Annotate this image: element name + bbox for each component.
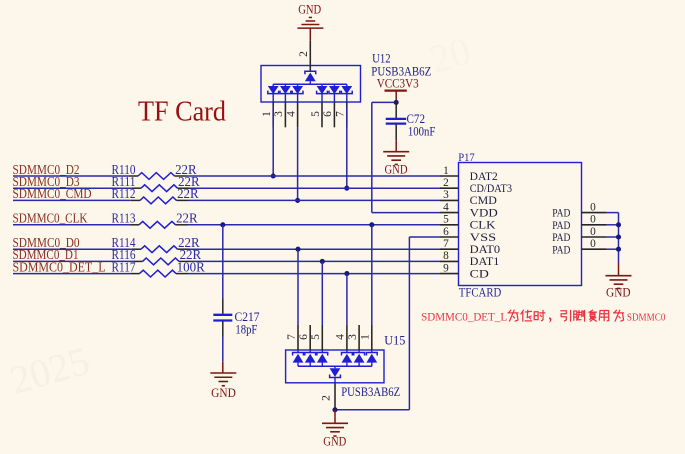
wire: VCC3V3 to P17 VDD (pin 4) (372, 102, 440, 212)
resistor R114 22R (112, 235, 200, 253)
resistor R113 22R (112, 211, 198, 229)
svg-text:7: 7 (286, 334, 298, 340)
svg-text:SDMMC0_CMD: SDMMC0_CMD (13, 186, 92, 201)
svg-text:P17: P17 (458, 150, 475, 164)
wire: SDMMC0_DET_L to U15 pin 4 (344, 271, 349, 325)
svg-text:DAT0: DAT0 (470, 244, 501, 256)
svg-text:5: 5 (443, 214, 449, 226)
P17 pin names (470, 171, 513, 281)
svg-text:SDMMC0: SDMMC0 (627, 311, 666, 323)
resistor R117 100R (112, 259, 205, 277)
svg-text:0: 0 (590, 226, 596, 238)
capacitor C72 100nF (386, 102, 436, 140)
svg-text:PAD: PAD (552, 232, 570, 244)
svg-text:VDD: VDD (470, 207, 498, 219)
ground GND (below C217) (210, 362, 236, 400)
P17 PAD pins (right side) (552, 201, 606, 256)
wire: SDMMC0_D1 to U15 pin 5 (320, 259, 325, 325)
svg-text:GND: GND (211, 386, 236, 400)
wire: SDMMC0_CLK to U15 pin 1 (369, 222, 374, 325)
svg-text:CD: CD (470, 268, 489, 280)
wire: SDMMC0_D0 to U15 pin 7 (295, 247, 300, 325)
wire: U12 pin 4 to SDMMC0_CMD (295, 127, 300, 203)
P17 pin numbers 1-9 (443, 165, 449, 275)
junction: U15 pin 2 / VSS / GND (332, 407, 337, 412)
svg-text:TF Card: TF Card (138, 96, 226, 128)
wire SDMMC0_CMD row (13, 199, 440, 201)
TVS diode array U12 (PUSB3AB6Z) (261, 66, 361, 128)
svg-text:R117: R117 (112, 259, 136, 274)
U12 pin numbers 1 3 4 5 6 7 (261, 111, 347, 117)
ground GND (top, U12 pin 2) (297, 2, 323, 28)
svg-text:DAT1: DAT1 (470, 256, 500, 268)
ground GND (right of P17) (606, 263, 632, 300)
svg-text:5: 5 (310, 334, 322, 340)
svg-text:0: 0 (590, 214, 596, 226)
svg-text:4: 4 (335, 334, 347, 340)
svg-text:U15: U15 (384, 334, 405, 348)
svg-text:R113: R113 (112, 211, 136, 226)
wire SDMMC0_DET_L row (13, 273, 440, 275)
watermark (5, 338, 94, 403)
svg-text:SDMMC0_DET_L: SDMMC0_DET_L (421, 310, 507, 323)
connector P17 (TFCARD socket) (440, 163, 582, 286)
svg-text:0: 0 (590, 238, 596, 250)
U15 pin numbers 7 6 5 4 3 1 (286, 334, 372, 340)
resistor R116 22R (112, 247, 202, 265)
resistor R111 22R (112, 174, 200, 192)
junction at VCC3V3 / C72 (394, 100, 399, 105)
svg-text:9: 9 (443, 262, 449, 274)
svg-text:1: 1 (261, 111, 273, 117)
svg-text:18pF: 18pF (235, 322, 257, 336)
svg-text:7: 7 (335, 111, 347, 117)
wire: U12 pin 1 to SDMMC0_D2 (271, 106, 276, 179)
wire: U12 pin 7 to SDMMC0_D3 (344, 106, 349, 191)
svg-text:VSS: VSS (470, 232, 496, 244)
svg-text:2: 2 (298, 51, 310, 57)
svg-text:SDMMC0_CLK: SDMMC0_CLK (13, 211, 88, 226)
svg-text:PAD: PAD (552, 208, 570, 220)
svg-text:3: 3 (273, 111, 285, 117)
wire SDMMC0_D2 row (13, 175, 440, 177)
svg-text:2: 2 (321, 395, 333, 401)
svg-text:1: 1 (443, 165, 449, 177)
svg-text:22R: 22R (176, 211, 198, 226)
junction: CLK / C217 (220, 222, 225, 227)
svg-text:22R: 22R (177, 186, 199, 201)
svg-text:7: 7 (443, 238, 449, 250)
svg-text:TFCARD: TFCARD (459, 285, 502, 299)
svg-text:0: 0 (590, 201, 596, 213)
wire SDMMC0_CLK row (13, 224, 440, 226)
svg-text:4: 4 (443, 201, 449, 213)
ground GND (below C72) (383, 141, 409, 177)
svg-text:SDMMC0_DET_L: SDMMC0_DET_L (13, 259, 106, 274)
svg-text:U12: U12 (372, 51, 391, 65)
svg-text:8: 8 (443, 250, 449, 262)
note: SDMMC0_DET_L low -> pins used as SDMMC0 (red) (421, 310, 665, 323)
wire: C217 to GND (222, 337, 224, 362)
svg-text:6: 6 (322, 111, 334, 117)
svg-text:GND: GND (298, 2, 321, 16)
svg-text:R112: R112 (112, 186, 136, 201)
wire SDMMC0_D0 row (13, 248, 440, 250)
svg-text:2: 2 (443, 177, 449, 189)
designator U15, value PUSB3AB6Z (341, 334, 405, 399)
wire: P17 VSS (pin 6) to GND net (335, 237, 440, 410)
svg-text:GND: GND (606, 286, 631, 300)
svg-text:3: 3 (443, 189, 449, 201)
wire: top GND to U12 pin 2 (309, 28, 311, 65)
power flag VCC3V3 (377, 76, 419, 102)
TVS diode array U15 (PUSB3AB6Z) (286, 325, 384, 409)
svg-text:100R: 100R (177, 259, 205, 274)
svg-text:GND: GND (323, 434, 346, 448)
svg-text:GND: GND (385, 162, 408, 176)
wire SDMMC0_D1 row (13, 260, 440, 262)
svg-text:CD/DAT3: CD/DAT3 (470, 183, 513, 195)
svg-text:5: 5 (310, 111, 322, 117)
svg-text:CLK: CLK (470, 220, 497, 232)
designator P17 / TFCARD (458, 150, 501, 299)
svg-text:DAT2: DAT2 (470, 171, 498, 183)
svg-text:4: 4 (285, 111, 297, 117)
svg-text:1: 1 (360, 334, 372, 340)
svg-text:3: 3 (347, 334, 359, 340)
wire: PAD pins to GND (607, 213, 621, 263)
designator U12, value PUSB3AB6Z (371, 51, 431, 78)
svg-text:6: 6 (298, 334, 310, 340)
wire SDMMC0_D3 row (13, 187, 440, 189)
svg-text:100nF: 100nF (408, 124, 436, 138)
capacitor C217 18pF (213, 299, 259, 337)
resistor R112 22R (112, 186, 199, 204)
ground GND (below U15) (322, 410, 348, 449)
svg-text:6: 6 (443, 226, 449, 238)
resistor R110 22R (112, 162, 197, 180)
svg-text:CMD: CMD (470, 195, 497, 207)
svg-text:VCC3V3: VCC3V3 (377, 76, 419, 90)
wire: CLK to C217 (222, 225, 224, 299)
svg-text:PAD: PAD (552, 244, 570, 256)
svg-text:PAD: PAD (552, 220, 570, 232)
svg-text:PUSB3AB6Z: PUSB3AB6Z (341, 385, 400, 399)
